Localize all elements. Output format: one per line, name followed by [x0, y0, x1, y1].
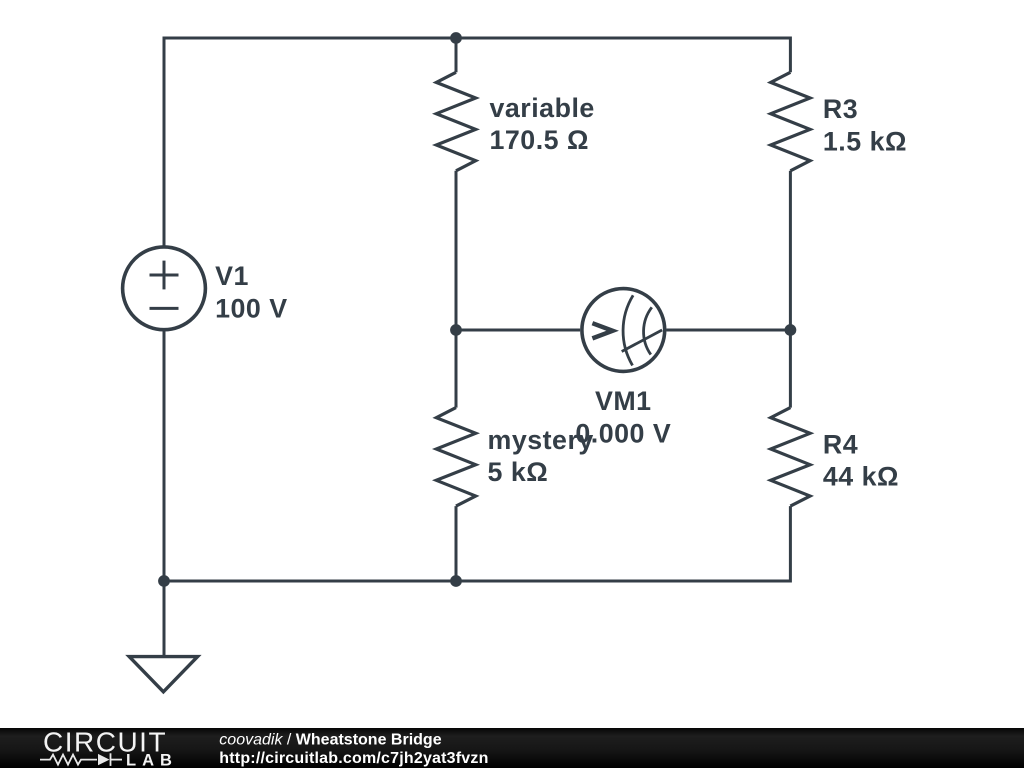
- resistor R3 zigzag: [771, 72, 810, 171]
- ground: [129, 657, 197, 692]
- svg-text:170.5 Ω: 170.5 Ω: [490, 125, 590, 155]
- wire mystery resistor bottom lead: [455, 506, 458, 581]
- svg-text:R3: R3: [823, 94, 858, 124]
- wire V1 bottom lead down to ground: [163, 330, 166, 657]
- svg-text:44 kΩ: 44 kΩ: [823, 462, 899, 492]
- wire top loop from V1 through top rail to R3: [164, 38, 790, 247]
- svg-text:R4: R4: [823, 429, 858, 459]
- svg-text:VM1: VM1: [595, 386, 652, 416]
- wire mid rail left of voltmeter: [456, 329, 580, 332]
- resistor R4 zigzag: [771, 408, 810, 507]
- svg-text:variable: variable: [490, 93, 595, 123]
- svg-text:http://circuitlab.com/c7jh2yat: http://circuitlab.com/c7jh2yat3fvzn: [219, 750, 488, 767]
- wire variable resistor bottom lead to mid-left node: [455, 171, 458, 330]
- node mid left: [450, 324, 462, 336]
- svg-text:0.000 V: 0.000 V: [575, 419, 671, 449]
- svg-text:coovadik / Wheatstone Bridge: coovadik / Wheatstone Bridge: [219, 731, 441, 748]
- wire mid rail right of voltmeter: [667, 329, 791, 332]
- node mid right: [785, 324, 797, 336]
- wire variable resistor top lead: [455, 38, 458, 72]
- svg-text:LAB: LAB: [126, 752, 178, 768]
- svg-text:V1: V1: [215, 261, 249, 291]
- node top center: [450, 32, 462, 44]
- wire R4 bottom lead and bottom rail: [164, 506, 790, 581]
- svg-text:5 kΩ: 5 kΩ: [488, 457, 549, 487]
- wire mystery resistor top lead: [455, 330, 458, 408]
- logo resistor-diode glyph: [40, 753, 122, 766]
- footer bar: [0, 726, 1024, 768]
- svg-text:100 V: 100 V: [215, 294, 288, 324]
- svg-text:1.5 kΩ: 1.5 kΩ: [823, 126, 907, 156]
- resistor variable zigzag: [436, 72, 475, 171]
- wire R3 bottom lead through mid-right node to R4: [789, 171, 792, 408]
- node bottom center: [450, 575, 462, 587]
- voltmeter VM1: [582, 289, 665, 372]
- resistor mystery zigzag: [436, 408, 475, 507]
- voltage source V1: [123, 247, 206, 330]
- node bottom left: [158, 575, 170, 587]
